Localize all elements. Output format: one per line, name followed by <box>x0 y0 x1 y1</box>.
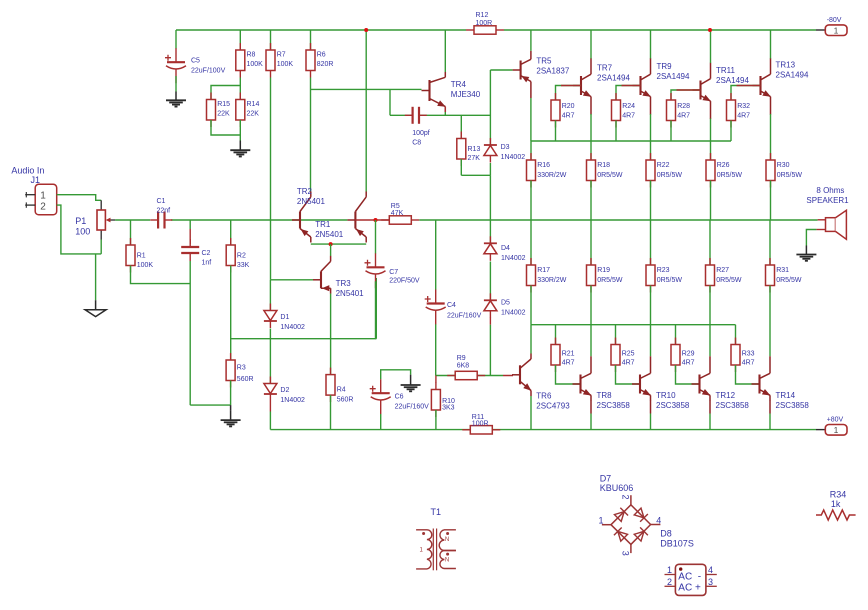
wire TR7 emitter to R18 <box>590 114 592 160</box>
svg-text:R16: R16 <box>537 162 550 169</box>
svg-text:220F/50V: 220F/50V <box>389 277 420 284</box>
svg-text:3: 3 <box>708 577 713 587</box>
wire TR4 collector to rail <box>444 30 446 72</box>
svg-text:2N5401: 2N5401 <box>336 289 365 298</box>
svg-text:560R: 560R <box>337 396 354 403</box>
svg-text:P1: P1 <box>75 216 86 226</box>
svg-text:TR10: TR10 <box>656 391 676 400</box>
connector J1 <box>11 166 56 215</box>
svg-text:6K8: 6K8 <box>457 362 470 369</box>
wire TR1/TR2 emitters junction <box>311 243 366 245</box>
wire C8 line <box>390 114 412 116</box>
wire R22 to output bus <box>650 181 652 221</box>
transistor TR2 2N5401 <box>347 191 366 242</box>
svg-text:KBU606: KBU606 <box>600 483 634 493</box>
svg-text:1: 1 <box>834 26 839 36</box>
wire D1 to D2 <box>269 329 271 384</box>
wire driver bus top <box>531 140 731 142</box>
wire R20 bottom to bus <box>555 121 557 142</box>
svg-text:22nf: 22nf <box>157 207 171 214</box>
svg-text:1N4002: 1N4002 <box>501 310 526 317</box>
svg-text:4: 4 <box>708 565 713 575</box>
svg-text:22K: 22K <box>247 111 260 118</box>
wire R1 bottom <box>131 266 191 284</box>
wire divider bottom <box>211 120 240 135</box>
speaker SPEAKER1 <box>806 186 849 239</box>
resistor R15 <box>207 93 231 128</box>
capacitor C1 <box>150 212 172 229</box>
wire TR4 emitter down <box>444 107 446 112</box>
ground C5 <box>166 100 186 106</box>
resistor R6 <box>310 30 312 50</box>
wire R23 down <box>650 286 652 357</box>
svg-text:TR4: TR4 <box>451 80 467 89</box>
wire R19 down <box>590 286 592 357</box>
resistor R27 0R5/5W <box>709 220 711 265</box>
wire R21 to TR8 base <box>556 365 581 384</box>
wire R6 to TR1 collector <box>310 78 312 192</box>
resistor R4 <box>326 368 353 404</box>
svg-text:R18: R18 <box>597 162 610 169</box>
wire D4 to D5 <box>489 262 491 301</box>
capacitor C7 <box>365 253 420 288</box>
wire bottom +80V rail <box>270 429 816 431</box>
transistor TR1 2N5401 <box>292 191 311 242</box>
resistor R21 4R7 <box>555 325 557 345</box>
svg-text:1: 1 <box>834 425 839 435</box>
svg-text:4R7: 4R7 <box>622 360 635 367</box>
svg-text:TR1: TR1 <box>315 220 331 229</box>
svg-text:4R7: 4R7 <box>562 360 575 367</box>
potentiometer P1 <box>75 200 115 239</box>
wire J1 pin2 to ground <box>57 205 101 254</box>
svg-text:1k: 1k <box>831 499 841 509</box>
wire C6 top to ground <box>381 370 411 380</box>
svg-text:0R5/5W: 0R5/5W <box>777 172 803 179</box>
wire C5 to rail <box>175 30 177 49</box>
transistor TR14 2SC3858 <box>752 356 771 401</box>
svg-text:TR12: TR12 <box>716 391 736 400</box>
wire C7 bottom to bias bus <box>375 281 377 338</box>
svg-text:N: N <box>445 537 449 543</box>
svg-text:R17: R17 <box>537 267 550 274</box>
svg-text:D2: D2 <box>280 387 289 394</box>
svg-text:2SC3858: 2SC3858 <box>597 401 631 410</box>
diode D2 <box>264 377 277 402</box>
wire driver bus bottom <box>531 324 736 326</box>
wire R32 bottom to bus <box>730 121 732 142</box>
svg-text:C4: C4 <box>447 302 456 309</box>
transistor TR7 2SA1494 <box>573 58 591 114</box>
wire D3 bottom node down <box>489 163 491 175</box>
resistor R31 0R5/5W <box>769 220 771 265</box>
resistor R12 <box>466 12 504 34</box>
svg-text:R33: R33 <box>742 351 755 358</box>
wire J1 pin1 to P1 <box>57 195 101 201</box>
svg-text:47K: 47K <box>391 210 404 217</box>
resistor R18 <box>587 153 623 188</box>
wire bias bus <box>231 338 377 340</box>
wire TR5 emitter to bus <box>530 98 532 141</box>
svg-text:D4: D4 <box>501 245 510 252</box>
wire node to D1 <box>269 280 271 310</box>
svg-text:1: 1 <box>599 515 604 525</box>
svg-text:R21: R21 <box>562 351 575 358</box>
wire TR9 collector to rail <box>650 30 652 59</box>
wire TR3 emitter to R4 <box>330 294 332 375</box>
svg-text:R24: R24 <box>622 103 635 110</box>
resistor R32 4R7 <box>727 93 751 128</box>
svg-text:1N4002: 1N4002 <box>501 255 526 262</box>
wire input signal line <box>115 219 150 221</box>
resistor R34 1k <box>816 510 856 520</box>
svg-text:2SA1494: 2SA1494 <box>776 71 809 80</box>
svg-text:2SA1837: 2SA1837 <box>536 67 569 76</box>
svg-text:22K: 22K <box>217 111 230 118</box>
resistor R29 4R7 <box>675 325 677 345</box>
wire R24 bottom to bus <box>615 121 617 142</box>
resistor R9 <box>447 355 485 380</box>
wire TR3 base <box>271 279 314 281</box>
svg-text:4R7: 4R7 <box>737 113 750 120</box>
wire R5 to output bus <box>419 219 817 221</box>
resistor R14 <box>236 93 260 128</box>
wire TR7 base <box>556 86 582 101</box>
wire C4 bottom to R9/R10 node <box>435 324 437 375</box>
svg-text:2SA1494: 2SA1494 <box>657 72 690 81</box>
svg-text:C2: C2 <box>202 250 211 257</box>
svg-text:TR8: TR8 <box>597 391 613 400</box>
capacitor C5 <box>165 48 226 83</box>
wire TR13 base <box>731 86 761 101</box>
wire divider top <box>211 86 240 100</box>
svg-text:22uF/100V: 22uF/100V <box>191 68 226 75</box>
transistor TR5 2SA1837 <box>513 51 531 98</box>
svg-text:R3: R3 <box>237 365 246 372</box>
svg-text:0R5/5W: 0R5/5W <box>657 277 683 284</box>
wire C5 to ground <box>175 76 177 92</box>
wire TR6 emitter to rail <box>530 396 532 430</box>
svg-text:R27: R27 <box>716 267 729 274</box>
wire TR8 emitter to rail <box>590 401 592 414</box>
resistor R24 4R7 <box>612 93 636 128</box>
svg-text:R13: R13 <box>468 146 481 153</box>
node TR11 collector rail <box>708 28 712 32</box>
resistor R33 4R7 <box>735 325 737 345</box>
wire R18 to output bus <box>590 181 592 221</box>
svg-text:2SA1494: 2SA1494 <box>597 74 630 83</box>
svg-text:C8: C8 <box>412 139 421 146</box>
svg-text:SPEAKER1: SPEAKER1 <box>806 196 849 205</box>
capacitor C4 <box>425 290 482 325</box>
transistor TR4 MJE340 <box>422 72 446 112</box>
svg-text:R25: R25 <box>622 351 635 358</box>
wire R7 to TR3 base node <box>270 78 272 280</box>
wire TR2-base node to C7 <box>375 220 377 254</box>
svg-text:D1: D1 <box>280 314 289 321</box>
svg-text:R15: R15 <box>217 101 230 108</box>
svg-text:J1: J1 <box>31 175 41 185</box>
svg-text:TR7: TR7 <box>597 64 613 73</box>
svg-text:330R/2W: 330R/2W <box>537 172 567 179</box>
svg-text:TR3: TR3 <box>336 279 352 288</box>
svg-text:DB107S: DB107S <box>660 538 694 548</box>
transistor TR12 2SC3858 <box>692 356 711 401</box>
svg-text:2SC3858: 2SC3858 <box>716 401 750 410</box>
svg-text:MJE340: MJE340 <box>451 90 481 99</box>
node TR2 collector rail <box>364 28 368 32</box>
wire TR11 base <box>671 90 701 100</box>
svg-text:TR11: TR11 <box>716 66 736 75</box>
svg-text:2: 2 <box>621 495 631 500</box>
resistor R16 <box>530 141 532 160</box>
transistor TR3 2N5401 <box>313 256 331 294</box>
resistor R22 <box>646 153 682 188</box>
diode D3 <box>489 70 491 145</box>
svg-text:1: 1 <box>40 191 46 202</box>
wire P1 bottom <box>100 240 102 254</box>
wire R28 bottom to bus <box>670 121 672 142</box>
svg-text:1N4002: 1N4002 <box>501 154 526 161</box>
svg-text:33K: 33K <box>237 262 250 269</box>
wire C6 bottom to rail <box>380 414 382 430</box>
svg-text:R34: R34 <box>830 489 847 499</box>
wire C2 bottom <box>189 261 191 405</box>
svg-text:R6: R6 <box>317 52 326 59</box>
svg-text:820R: 820R <box>317 61 334 68</box>
svg-text:4R7: 4R7 <box>682 360 695 367</box>
svg-text:0R5/5W: 0R5/5W <box>776 277 802 284</box>
svg-text:-80V: -80V <box>827 17 842 24</box>
transistor TR13 2SA1494 <box>753 58 771 114</box>
svg-text:0R5/5W: 0R5/5W <box>717 172 743 179</box>
svg-text:560R: 560R <box>237 376 254 383</box>
wire TR11 collector to rail <box>710 30 712 63</box>
resistor R26 <box>706 153 742 188</box>
transistor TR9 2SA1494 <box>633 58 651 114</box>
transistor TR8 2SC3858 <box>573 356 592 401</box>
ground speaker <box>796 255 816 261</box>
svg-text:R9: R9 <box>457 355 466 362</box>
svg-text:330R/2W: 330R/2W <box>537 277 567 284</box>
svg-text:R7: R7 <box>277 52 286 59</box>
wire D2 to +80V rail <box>269 401 271 412</box>
wire R25 to TR10 base <box>616 365 641 384</box>
svg-text:22uF/160V: 22uF/160V <box>447 313 482 320</box>
svg-text:R12: R12 <box>476 12 489 19</box>
wire R33 to TR14 base <box>736 365 760 384</box>
svg-text:2SC4793: 2SC4793 <box>536 401 570 410</box>
svg-text:4R7: 4R7 <box>562 113 575 120</box>
transistor TR6 2SC4793 <box>512 354 531 397</box>
resistor R25 4R7 <box>615 325 617 345</box>
wire speaker to ground <box>806 230 816 246</box>
svg-text:R29: R29 <box>682 351 695 358</box>
ground R14 <box>230 150 250 156</box>
svg-text:TR5: TR5 <box>536 57 552 66</box>
svg-text:TR14: TR14 <box>776 391 796 400</box>
wire TR9 base <box>616 86 641 101</box>
wire R29 to TR12 base <box>676 365 700 384</box>
transistor TR10 2SC3858 <box>632 356 651 401</box>
svg-text:2: 2 <box>667 577 672 587</box>
svg-text:R2: R2 <box>237 253 246 260</box>
svg-text:R30: R30 <box>777 162 790 169</box>
svg-text:D5: D5 <box>501 300 510 307</box>
terminal +80V <box>816 417 847 436</box>
resistor R19 0R5/5W <box>590 220 592 265</box>
wire TR6 collector to bus2 <box>530 325 532 354</box>
resistor R3 <box>226 353 253 388</box>
wire TR10 emitter to rail <box>650 401 652 414</box>
svg-text:R14: R14 <box>247 101 260 108</box>
svg-text:TR6: TR6 <box>536 391 552 400</box>
resistor R8 <box>239 30 241 50</box>
wire TR5 collector to rail <box>530 30 532 51</box>
wire TR7 collector to rail <box>590 30 592 59</box>
wire emitters to TR3 collector <box>330 244 332 256</box>
svg-text:4: 4 <box>656 515 661 525</box>
wire TR5 base <box>490 69 512 71</box>
wire R9 line <box>436 375 456 377</box>
svg-text:0R5/5W: 0R5/5W <box>657 172 683 179</box>
svg-text:D7: D7 <box>600 473 612 483</box>
resistor R11 <box>462 414 500 434</box>
wire TR14 emitter to rail <box>769 401 771 414</box>
wire R31 down <box>769 286 771 357</box>
svg-text:100K: 100K <box>277 61 294 68</box>
svg-text:2N5401: 2N5401 <box>297 197 326 206</box>
capacitor C8 <box>405 107 427 124</box>
capacitor C2 <box>189 220 191 229</box>
svg-text:4R7: 4R7 <box>742 360 755 367</box>
svg-text:22uF/160V: 22uF/160V <box>395 403 430 410</box>
svg-text:100R: 100R <box>476 20 493 27</box>
svg-text:R4: R4 <box>337 387 346 394</box>
bridge rectifier D7 KBU606 <box>602 495 661 553</box>
svg-text:0R5/5W: 0R5/5W <box>716 277 742 284</box>
wire TR2 collector to rail <box>365 30 367 192</box>
wire TR13 emitter to R30 <box>770 114 772 160</box>
svg-text:2SC3858: 2SC3858 <box>776 401 810 410</box>
svg-text:R20: R20 <box>562 103 575 110</box>
bridge rectifier D8 DB107S <box>665 564 717 595</box>
svg-text:R28: R28 <box>677 103 690 110</box>
capacitor C6 <box>370 379 429 414</box>
svg-text:C6: C6 <box>395 394 404 401</box>
svg-text:T1: T1 <box>431 507 442 517</box>
ground C6 <box>401 385 421 391</box>
svg-text:2: 2 <box>40 201 46 212</box>
svg-text:100: 100 <box>75 227 90 237</box>
wire R2 bottom to node <box>230 266 232 361</box>
svg-text:2SC3858: 2SC3858 <box>656 401 690 410</box>
resistor R2 <box>230 220 232 245</box>
transistor TR11 2SA1494 <box>693 63 711 119</box>
wire TR9 emitter to R22 <box>650 114 652 160</box>
resistor R20 4R7 <box>551 93 575 128</box>
wire R13 bottom <box>460 159 462 175</box>
svg-text:2SA1494: 2SA1494 <box>716 76 749 85</box>
svg-text:0R5/5W: 0R5/5W <box>597 277 623 284</box>
svg-text:R26: R26 <box>717 162 730 169</box>
terminal -80V <box>816 17 847 36</box>
svg-text:TR9: TR9 <box>657 62 673 71</box>
ground J1 triangle <box>95 300 97 310</box>
resistor R28 4R7 <box>667 93 691 128</box>
resistor R23 0R5/5W <box>650 220 652 265</box>
wire D5 to R9 line <box>489 318 491 325</box>
svg-text:8 Ohms: 8 Ohms <box>816 186 844 195</box>
node TR2 base <box>374 218 378 222</box>
wire R30 to output bus <box>770 181 772 221</box>
wire R4 bottom to rail <box>330 395 332 430</box>
diode D4 <box>484 236 497 260</box>
svg-text:TR13: TR13 <box>776 61 796 70</box>
svg-text:1nf: 1nf <box>202 259 212 266</box>
diode D5 <box>484 293 497 318</box>
wire TR11 emitter to R26 <box>710 119 712 161</box>
resistor R13 <box>460 115 462 138</box>
svg-text:R22: R22 <box>657 162 670 169</box>
svg-text:R23: R23 <box>657 267 670 274</box>
svg-text:R5: R5 <box>391 203 400 210</box>
wire top -80V rail <box>176 29 466 31</box>
node emitters <box>329 242 333 246</box>
wire R3 bottom <box>230 381 232 406</box>
svg-text:100R: 100R <box>472 420 489 427</box>
ground R3 <box>221 420 241 426</box>
svg-text:1N4002: 1N4002 <box>280 397 305 404</box>
wire R8 bottom to divider <box>239 78 241 100</box>
svg-text:4R7: 4R7 <box>677 113 690 120</box>
svg-text:1N4002: 1N4002 <box>280 324 305 331</box>
wire R16 to output bus <box>530 181 532 221</box>
wire R27 down <box>709 286 711 357</box>
svg-text:100K: 100K <box>137 262 154 269</box>
resistor R5 <box>381 203 419 224</box>
svg-text:N: N <box>445 558 449 564</box>
wire TR12 emitter to rail <box>709 401 711 414</box>
svg-text:R8: R8 <box>247 52 256 59</box>
svg-text:D8: D8 <box>660 529 672 539</box>
wire TR2 base to R5 <box>355 219 389 221</box>
svg-text:C1: C1 <box>157 198 166 205</box>
wire TR13 collector to rail <box>770 30 772 59</box>
svg-text:D3: D3 <box>501 144 510 151</box>
svg-text:3: 3 <box>621 551 631 556</box>
svg-text:27K: 27K <box>468 155 481 162</box>
svg-text:C7: C7 <box>389 269 398 276</box>
svg-text:3K3: 3K3 <box>442 404 455 411</box>
svg-text:2N5401: 2N5401 <box>315 230 344 239</box>
wire output bus to C4 <box>435 220 437 290</box>
svg-text:R31: R31 <box>776 267 789 274</box>
svg-text:100K: 100K <box>247 61 264 68</box>
wire R17 to bus2 <box>530 286 532 325</box>
svg-text:4R7: 4R7 <box>622 113 635 120</box>
svg-text:R19: R19 <box>597 267 610 274</box>
resistor R7 <box>270 30 272 50</box>
resistor R1 <box>130 220 132 245</box>
diode D1 <box>264 304 277 329</box>
svg-text:R1: R1 <box>137 253 146 260</box>
resistor R30 <box>766 153 802 188</box>
resistor R10 <box>435 376 437 384</box>
svg-text:AC -: AC - <box>678 572 701 583</box>
wire R26 to output bus <box>710 181 712 221</box>
svg-text:Audio In: Audio In <box>11 166 44 176</box>
